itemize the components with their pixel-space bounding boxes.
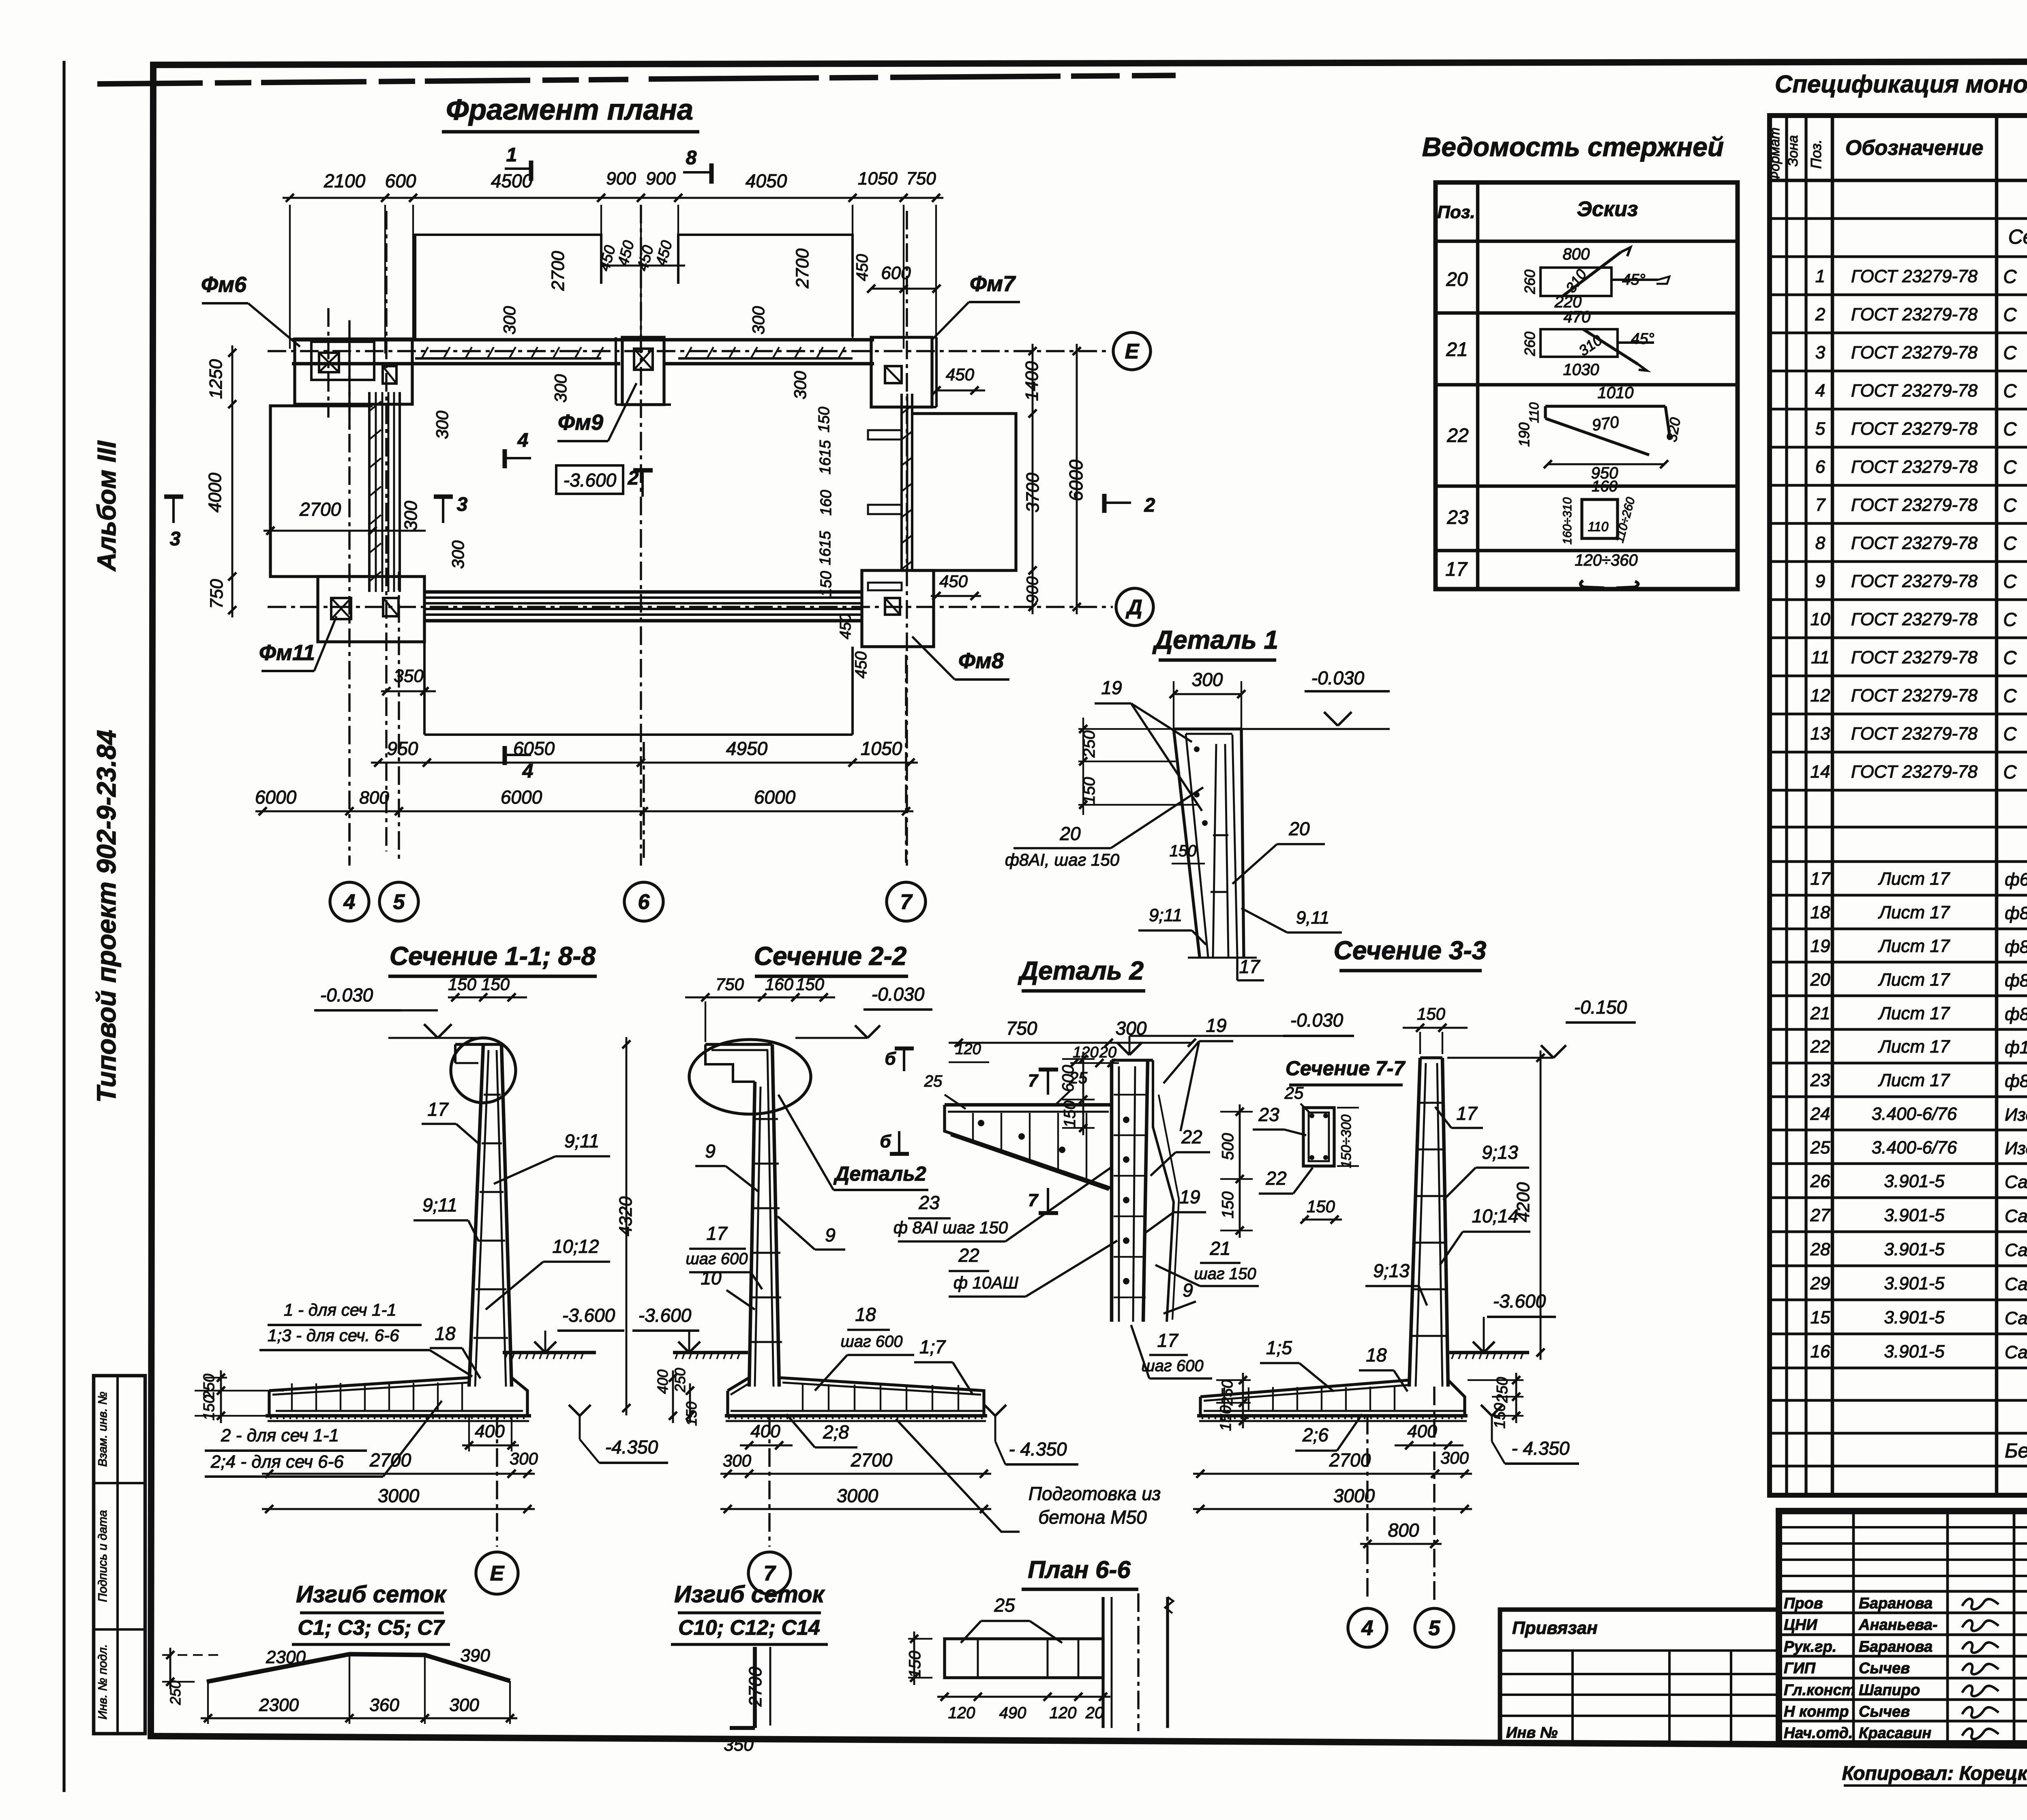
svg-text:4: 4 xyxy=(522,761,534,782)
svg-text:ГОСТ 23279-78: ГОСТ 23279-78 xyxy=(1851,533,1978,553)
section 3-3 ground right -3.600 xyxy=(1449,1351,1529,1355)
svg-text:23: 23 xyxy=(918,1192,940,1213)
svg-text:150÷300: 150÷300 xyxy=(1339,1115,1354,1168)
svg-text:Эскиз: Эскиз xyxy=(1577,197,1638,221)
svg-text:25: 25 xyxy=(924,1072,943,1090)
svg-text:20: 20 xyxy=(1085,1704,1104,1722)
svg-text:шаг 600: шаг 600 xyxy=(1141,1357,1203,1375)
svg-text:шаг 600: шаг 600 xyxy=(840,1333,902,1351)
svg-text:150: 150 xyxy=(448,975,477,994)
svg-text:3.901-5: 3.901-5 xyxy=(1884,1342,1945,1361)
svg-text:750: 750 xyxy=(716,975,744,994)
svg-text:7: 7 xyxy=(900,890,913,914)
svg-text:С: С xyxy=(2003,304,2017,325)
svg-text:750: 750 xyxy=(906,169,936,189)
foundation pad FM9 xyxy=(622,337,664,405)
svg-text:С: С xyxy=(2003,761,2017,782)
foundation pad FM6 xyxy=(295,339,412,404)
svg-text:2700: 2700 xyxy=(1329,1449,1371,1471)
svg-text:2;6: 2;6 xyxy=(1302,1424,1328,1445)
svg-text:18: 18 xyxy=(1366,1344,1387,1366)
svg-text:5: 5 xyxy=(393,890,405,914)
right wall strip hatch xyxy=(902,405,912,414)
svg-text:22: 22 xyxy=(1181,1126,1202,1147)
svg-text:490: 490 xyxy=(999,1704,1026,1722)
svg-text:Изгиб сеток: Изгиб сеток xyxy=(674,1581,825,1608)
svg-text:8: 8 xyxy=(686,147,697,169)
left wall strip hatch xyxy=(369,401,381,411)
svg-text:300: 300 xyxy=(749,306,768,334)
svg-text:ГОСТ 23279-78: ГОСТ 23279-78 xyxy=(1851,762,1978,782)
upper wall along axis E xyxy=(292,338,874,342)
svg-text:600: 600 xyxy=(1059,1065,1077,1092)
detail 2 section marks 6 xyxy=(903,1048,905,1071)
svg-text:С: С xyxy=(2003,571,2017,592)
svg-text:18: 18 xyxy=(855,1304,876,1325)
svg-text:С: С xyxy=(2003,685,2017,706)
svg-text:Лист 17: Лист 17 xyxy=(1878,1003,1950,1023)
svg-text:Рук.гр.: Рук.гр. xyxy=(1784,1638,1836,1655)
svg-text:6000: 6000 xyxy=(255,787,297,808)
svg-text:4500: 4500 xyxy=(491,170,533,191)
svg-text:1;7: 1;7 xyxy=(919,1336,946,1357)
svg-text:19: 19 xyxy=(1101,677,1122,698)
svg-text:ф 10АШ: ф 10АШ xyxy=(954,1273,1018,1292)
svg-text:ф8АI, ГОСТ 5781-82, ℓср=270: ф8АI, ГОСТ 5781-82, ℓср=270 xyxy=(2005,903,2027,923)
svg-text:ГОСТ 23279-78: ГОСТ 23279-78 xyxy=(1851,266,1978,286)
dim 2700/300 in left room xyxy=(264,530,426,532)
svg-text:С: С xyxy=(2003,495,2017,516)
svg-text:Поз.: Поз. xyxy=(1808,139,1824,169)
section 2-2 ground left -3.600 xyxy=(673,1351,748,1355)
svg-text:25: 25 xyxy=(1284,1083,1304,1102)
svg-text:С10; С12; С14: С10; С12; С14 xyxy=(678,1616,820,1640)
section 1-1 footing xyxy=(269,1378,469,1391)
mesh bend bracket right xyxy=(753,1647,757,1728)
svg-text:С: С xyxy=(2003,380,2017,401)
svg-text:150: 150 xyxy=(481,975,510,994)
svg-text:1030: 1030 xyxy=(1563,361,1599,379)
svg-text:ГОСТ 23279-78: ГОСТ 23279-78 xyxy=(1851,647,1978,667)
svg-text:4: 4 xyxy=(517,430,529,451)
svg-text:9: 9 xyxy=(825,1224,836,1245)
svg-text:б: б xyxy=(885,1049,896,1069)
svg-text:3.901-5: 3.901-5 xyxy=(1884,1239,1945,1259)
plan upper room rectangles xyxy=(415,235,601,339)
svg-text:3: 3 xyxy=(170,528,181,550)
foundation pad FM11 xyxy=(318,577,424,642)
svg-text:ф6АI, ГОСТ 5781-82, ℓ=320: ф6АI, ГОСТ 5781-82, ℓ=320 xyxy=(2005,870,2027,890)
svg-text:29: 29 xyxy=(1810,1273,1830,1293)
svg-text:300: 300 xyxy=(1192,669,1223,690)
svg-text:Поз.: Поз. xyxy=(1437,202,1475,222)
svg-text:20: 20 xyxy=(1446,269,1468,290)
svg-text:150: 150 xyxy=(201,1395,218,1420)
svg-text:17: 17 xyxy=(706,1223,728,1244)
svg-text:4050: 4050 xyxy=(746,170,787,191)
section 3-3 dims 2700 300 xyxy=(1193,1473,1472,1475)
svg-text:Гл.конст: Гл.конст xyxy=(1784,1682,1855,1699)
svg-text:2300: 2300 xyxy=(259,1695,299,1715)
svg-text:бетона М50: бетона М50 xyxy=(1038,1507,1147,1528)
svg-text:С1; С3; С5; С7: С1; С3; С5; С7 xyxy=(298,1616,445,1640)
svg-text:ГОСТ 23279-78: ГОСТ 23279-78 xyxy=(1851,343,1978,362)
svg-text:20: 20 xyxy=(1288,818,1310,839)
svg-text:Формат: Формат xyxy=(1767,127,1783,182)
section 1-1 footing ladder ticks xyxy=(291,1383,293,1411)
svg-text:ГОСТ 23279-78: ГОСТ 23279-78 xyxy=(1851,609,1978,629)
svg-text:260: 260 xyxy=(1521,332,1538,356)
svg-text:5: 5 xyxy=(1815,419,1826,439)
svg-text:2300: 2300 xyxy=(266,1647,306,1667)
section 2-2 detail ellipse xyxy=(689,1040,811,1114)
svg-text:Фм8: Фм8 xyxy=(958,649,1004,673)
svg-text:190: 190 xyxy=(1516,422,1532,447)
svg-text:Сечение 7-7: Сечение 7-7 xyxy=(1286,1057,1406,1080)
svg-text:150: 150 xyxy=(1170,842,1197,860)
svg-text:9;11: 9;11 xyxy=(1149,905,1182,925)
svg-text:800: 800 xyxy=(1563,245,1590,263)
svg-text:11: 11 xyxy=(1811,647,1830,667)
svg-text:1: 1 xyxy=(506,144,517,166)
svg-text:3000: 3000 xyxy=(1333,1485,1375,1506)
svg-text:19: 19 xyxy=(1811,936,1830,956)
svg-text:18: 18 xyxy=(1811,902,1830,922)
svg-text:1: 1 xyxy=(1815,266,1825,286)
svg-text:Деталь2: Деталь2 xyxy=(833,1162,926,1185)
section 2-2 wall cap xyxy=(705,1043,772,1046)
svg-text:9,11: 9,11 xyxy=(1296,908,1329,928)
svg-text:3.901-5: 3.901-5 xyxy=(1884,1205,1945,1225)
svg-text:ГОСТ 23279-78: ГОСТ 23279-78 xyxy=(1851,686,1978,705)
svg-text:ЦНИ: ЦНИ xyxy=(1784,1616,1817,1633)
svg-text:470: 470 xyxy=(1564,308,1591,326)
svg-text:12: 12 xyxy=(1811,686,1830,705)
section 2-2 dims 300 2700 xyxy=(720,1473,991,1475)
section 3-3 dim 800 xyxy=(1360,1543,1442,1545)
svg-text:2700: 2700 xyxy=(851,1449,893,1471)
section 1-1 prep layer xyxy=(268,1420,529,1422)
svg-text:Сальник dy=150; ℓ=300: Сальник dy=150; ℓ=300 xyxy=(2005,1240,2027,1260)
spec table column lines xyxy=(1785,116,1788,1495)
section 2-2 wall ladder xyxy=(753,1118,778,1120)
section 1-1 wall mesh ladder xyxy=(484,1094,501,1096)
title block outer xyxy=(1779,1511,2027,1743)
svg-text:ГОСТ 23279-78: ГОСТ 23279-78 xyxy=(1851,304,1978,324)
svg-text:Подпись и дата: Подпись и дата xyxy=(96,1510,109,1602)
svg-text:400: 400 xyxy=(475,1421,505,1441)
svg-text:120÷360: 120÷360 xyxy=(1575,551,1637,569)
svg-text:Деталь 2: Деталь 2 xyxy=(1018,956,1144,985)
svg-text:3.901-5: 3.901-5 xyxy=(1884,1273,1945,1293)
svg-text:450: 450 xyxy=(853,254,871,281)
svg-text:Сальник dy=100; ℓ=200: Сальник dy=100; ℓ=200 xyxy=(2005,1308,2027,1328)
detail 2 wall outer face right xyxy=(1153,1060,1174,1322)
svg-text:-0.150: -0.150 xyxy=(1574,997,1627,1018)
detail 2 ladder rungs xyxy=(1114,1094,1146,1095)
svg-text:300: 300 xyxy=(500,306,519,334)
svg-text:Фрагмент плана: Фрагмент плана xyxy=(446,94,693,126)
plan left room rectangle xyxy=(270,406,373,577)
left vertical wall strip xyxy=(368,392,371,592)
svg-text:Сычев: Сычев xyxy=(1859,1660,1910,1677)
section 3-3 prep layer xyxy=(1199,1420,1467,1422)
svg-text:120: 120 xyxy=(1050,1704,1077,1722)
section 3-3 footing xyxy=(1200,1380,1409,1397)
svg-text:150: 150 xyxy=(1219,1192,1237,1219)
svg-text:Лист 17: Лист 17 xyxy=(1878,1037,1950,1057)
svg-text:25: 25 xyxy=(994,1595,1015,1616)
svg-text:19: 19 xyxy=(1206,1015,1226,1036)
svg-text:С: С xyxy=(2003,533,2017,554)
svg-text:21: 21 xyxy=(1810,1003,1830,1023)
svg-text:9: 9 xyxy=(1183,1280,1193,1301)
svg-text:Спецификация монолитных подп: Спецификация монолитных подпорных стен (… xyxy=(1775,71,2027,98)
svg-text:Взам. инв. №: Взам. инв. № xyxy=(96,1391,109,1467)
svg-text:5: 5 xyxy=(1429,1616,1441,1640)
svg-text:26: 26 xyxy=(1810,1171,1830,1191)
svg-text:9;13: 9;13 xyxy=(1373,1260,1410,1281)
svg-text:9;11: 9;11 xyxy=(422,1194,457,1215)
section mark 3 left xyxy=(172,497,175,523)
svg-text:160: 160 xyxy=(1592,478,1617,495)
svg-text:- 4.350: - 4.350 xyxy=(1009,1438,1067,1460)
svg-text:160÷310: 160÷310 xyxy=(1561,497,1574,544)
svg-text:20: 20 xyxy=(1059,823,1081,844)
svg-text:300: 300 xyxy=(791,371,810,399)
svg-text:ф8АI, ГОСТ 5781-82, ℓ=2230: ф8АI, ГОСТ 5781-82, ℓ=2230 xyxy=(2005,1004,2027,1024)
svg-text:С: С xyxy=(2003,418,2017,439)
svg-text:Изделие закладное МИ1-15: Изделие закладное МИ1-15 xyxy=(2005,1138,2027,1158)
left margin stamp table xyxy=(94,1376,145,1734)
svg-text:Лист 17: Лист 17 xyxy=(1878,936,1950,956)
svg-text:450: 450 xyxy=(837,613,854,639)
section 2-2 footing ladder xyxy=(802,1384,804,1411)
svg-text:Сетка арматурная: Сетка арматурная xyxy=(2008,225,2027,248)
svg-text:Баранова: Баранова xyxy=(1859,1595,1933,1612)
svg-text:22: 22 xyxy=(1265,1168,1286,1189)
svg-text:27: 27 xyxy=(1810,1205,1831,1225)
svg-text:Красавин: Красавин xyxy=(1859,1725,1931,1742)
svg-text:6: 6 xyxy=(638,890,650,914)
svg-text:3: 3 xyxy=(1815,343,1826,362)
section 3-3 dim 3000 xyxy=(1193,1508,1472,1510)
svg-text:2;4 - для сеч 6-6: 2;4 - для сеч 6-6 xyxy=(210,1452,344,1472)
svg-text:3: 3 xyxy=(457,494,468,515)
svg-text:8: 8 xyxy=(1815,533,1826,553)
svg-text:600: 600 xyxy=(385,170,416,191)
svg-text:1;3 - для сеч. 6-6: 1;3 - для сеч. 6-6 xyxy=(268,1326,399,1345)
svg-text:Н контр: Н контр xyxy=(1784,1703,1849,1720)
svg-text:Сальник dy=50; ℓ=200: Сальник dy=50; ℓ=200 xyxy=(2005,1342,2027,1362)
svg-text:300: 300 xyxy=(448,540,467,569)
svg-text:150: 150 xyxy=(818,571,835,596)
detail 1 bottom break and 17 xyxy=(1188,957,1257,959)
lower wall along axis D xyxy=(424,590,862,594)
svg-text:ф8АI, ГОСТ 5781-82, ℓобщ=: ф8АI, ГОСТ 5781-82, ℓобщ= xyxy=(2005,937,2027,957)
right vertical wall strip xyxy=(900,394,903,570)
svg-text:1 - для сеч 1-1: 1 - для сеч 1-1 xyxy=(284,1300,396,1319)
svg-text:2700: 2700 xyxy=(548,251,568,291)
vedomost table frame xyxy=(1436,182,1738,589)
svg-text:-3.600: -3.600 xyxy=(1493,1291,1546,1312)
section 1-1 dims 2700 300 xyxy=(262,1473,535,1475)
svg-text:Деталь 1: Деталь 1 xyxy=(1152,625,1278,654)
svg-text:1615: 1615 xyxy=(817,531,834,565)
svg-text:300: 300 xyxy=(1440,1448,1469,1467)
svg-text:22: 22 xyxy=(1446,425,1468,446)
svg-text:2700: 2700 xyxy=(793,249,812,289)
svg-text:б: б xyxy=(880,1132,891,1151)
svg-text:1010: 1010 xyxy=(1598,384,1634,402)
svg-text:450: 450 xyxy=(939,572,968,591)
section mark 4 lower xyxy=(505,754,531,756)
svg-text:Фм11: Фм11 xyxy=(259,641,315,665)
svg-text:Фм6: Фм6 xyxy=(201,272,247,297)
svg-text:3000: 3000 xyxy=(837,1485,879,1506)
plan 6-6 slab plan xyxy=(945,1639,1103,1678)
svg-text:3.400-6/76: 3.400-6/76 xyxy=(1872,1104,1957,1124)
plan top extension lines xyxy=(289,205,291,349)
section 2-2 axis 7 circle xyxy=(768,1416,771,1547)
section 7-7 small section rect xyxy=(1303,1108,1334,1166)
svg-text:18: 18 xyxy=(435,1323,456,1344)
svg-text:800: 800 xyxy=(1388,1520,1419,1541)
svg-text:Лист 17: Лист 17 xyxy=(1878,970,1950,990)
svg-text:23: 23 xyxy=(1810,1070,1830,1090)
section mark 1 top xyxy=(505,167,531,170)
svg-text:24: 24 xyxy=(1810,1104,1830,1124)
plan top dimension chain xyxy=(283,197,943,199)
svg-text:390: 390 xyxy=(460,1646,490,1666)
svg-text:300: 300 xyxy=(510,1449,538,1468)
svg-text:400: 400 xyxy=(750,1421,780,1441)
svg-text:Ведомость стержней: Ведомость стержней xyxy=(1422,132,1724,162)
svg-text:Е: Е xyxy=(490,1562,505,1585)
section 2-2 prep layer xyxy=(726,1420,986,1422)
plan right dimension chains xyxy=(1032,344,1034,614)
svg-text:ГОСТ 23279-78: ГОСТ 23279-78 xyxy=(1851,495,1978,515)
plan bottom axis circles xyxy=(348,823,351,863)
pad FM6 axis verticals xyxy=(327,308,330,418)
svg-text:250: 250 xyxy=(672,1368,688,1393)
svg-text:750: 750 xyxy=(207,579,227,609)
section 2-2 wall xyxy=(749,1082,755,1387)
spec table outer frame xyxy=(1770,116,2027,1495)
svg-text:4950: 4950 xyxy=(726,738,768,759)
svg-text:20: 20 xyxy=(1810,970,1830,990)
svg-text:ф8АI, ГОСТ 5781-82, ℓ=1750: ф8АI, ГОСТ 5781-82, ℓ=1750 xyxy=(2005,971,2027,990)
detail 2 wall part xyxy=(1110,1060,1114,1322)
svg-text:900: 900 xyxy=(1024,577,1041,604)
svg-text:Лист 17: Лист 17 xyxy=(1878,1070,1950,1090)
svg-text:900: 900 xyxy=(606,169,636,189)
svg-text:17: 17 xyxy=(1239,956,1260,977)
plan interior bottom edge xyxy=(424,733,853,736)
section 1-1 ground at -3.600 xyxy=(503,1351,596,1355)
section mark 4 upper xyxy=(505,457,531,459)
svg-text:17: 17 xyxy=(1157,1330,1178,1351)
svg-text:3.901-5: 3.901-5 xyxy=(1884,1171,1945,1191)
svg-text:400: 400 xyxy=(654,1370,671,1394)
svg-text:900: 900 xyxy=(646,169,676,189)
axis D circle xyxy=(1116,588,1153,626)
svg-text:23: 23 xyxy=(1446,507,1469,528)
svg-text:10: 10 xyxy=(1811,609,1830,629)
section 3-3 wall xyxy=(1409,1058,1420,1387)
svg-text:Е: Е xyxy=(1125,340,1140,363)
upper wall hatch ticks xyxy=(422,347,428,358)
svg-text:150: 150 xyxy=(796,975,825,994)
svg-text:4320: 4320 xyxy=(616,1196,636,1236)
svg-text:6000: 6000 xyxy=(1065,459,1086,501)
svg-text:ГОСТ 23279-78: ГОСТ 23279-78 xyxy=(1851,419,1978,439)
svg-text:21: 21 xyxy=(1209,1238,1230,1259)
svg-text:6050: 6050 xyxy=(513,738,555,759)
svg-text:С: С xyxy=(2003,457,2017,478)
svg-text:7: 7 xyxy=(1815,495,1826,515)
svg-text:-3.600: -3.600 xyxy=(562,1305,615,1326)
svg-text:2;8: 2;8 xyxy=(823,1421,849,1443)
svg-text:970: 970 xyxy=(1591,413,1620,435)
svg-text:С: С xyxy=(2003,609,2017,630)
svg-text:800: 800 xyxy=(359,788,389,808)
svg-text:ГОСТ 23279-78: ГОСТ 23279-78 xyxy=(1851,381,1978,401)
svg-text:6000: 6000 xyxy=(754,787,796,808)
svg-text:15: 15 xyxy=(1811,1308,1830,1327)
svg-text:Изгиб сеток: Изгиб сеток xyxy=(296,1581,447,1608)
svg-text:110: 110 xyxy=(1527,402,1541,423)
svg-text:ф10АШ ГОСТ 5781-82, ℓ=2410: ф10АШ ГОСТ 5781-82, ℓ=2410 xyxy=(2005,1038,2027,1057)
plan 6-6 dims bottom xyxy=(937,1696,1110,1698)
svg-text:28: 28 xyxy=(1810,1239,1830,1259)
svg-text:25: 25 xyxy=(1810,1138,1830,1158)
svg-text:10: 10 xyxy=(701,1267,722,1288)
section 1-1 wall xyxy=(455,1043,501,1046)
svg-text:2700: 2700 xyxy=(746,1667,765,1707)
plan bottom dim chain 6000 800 6000 6000 xyxy=(255,810,913,812)
svg-text:Изделие закладное МИ3-10: Изделие закладное МИ3-10 xyxy=(2005,1105,2027,1125)
svg-text:3000: 3000 xyxy=(378,1485,420,1506)
section mark 2 right xyxy=(1104,502,1131,504)
section 2-2 footing xyxy=(728,1378,749,1391)
svg-text:400: 400 xyxy=(1407,1421,1437,1441)
svg-text:- 4.350: - 4.350 xyxy=(1511,1438,1570,1459)
plan left dimension chain xyxy=(231,345,234,617)
svg-text:Пров: Пров xyxy=(1784,1595,1823,1612)
detail 2 section marks 7 xyxy=(1047,1070,1049,1095)
detail 2 mesh dots xyxy=(1123,1117,1129,1123)
svg-text:160: 160 xyxy=(765,975,794,994)
svg-text:Сальник dy=125; ℓ=300: Сальник dy=125; ℓ=300 xyxy=(2005,1274,2027,1294)
svg-text:Обозначение: Обозначение xyxy=(1845,136,1984,160)
svg-text:С: С xyxy=(2003,266,2017,287)
svg-text:ГИП: ГИП xyxy=(1784,1660,1816,1677)
svg-text:950: 950 xyxy=(387,738,418,759)
svg-text:Ананьева-: Ананьева- xyxy=(1858,1616,1937,1633)
svg-text:шаг 150: шаг 150 xyxy=(1194,1265,1256,1283)
svg-text:300: 300 xyxy=(551,374,570,403)
svg-text:500: 500 xyxy=(1219,1133,1237,1160)
svg-text:-3.600: -3.600 xyxy=(564,469,617,491)
svg-text:шаг 600: шаг 600 xyxy=(686,1250,748,1268)
svg-text:1250: 1250 xyxy=(206,359,226,399)
svg-text:10;12: 10;12 xyxy=(552,1236,599,1257)
detail 2 cap slab xyxy=(945,1103,1112,1107)
svg-text:300: 300 xyxy=(401,501,421,531)
svg-text:Лист 17: Лист 17 xyxy=(1878,902,1950,922)
svg-text:С: С xyxy=(2003,723,2017,744)
